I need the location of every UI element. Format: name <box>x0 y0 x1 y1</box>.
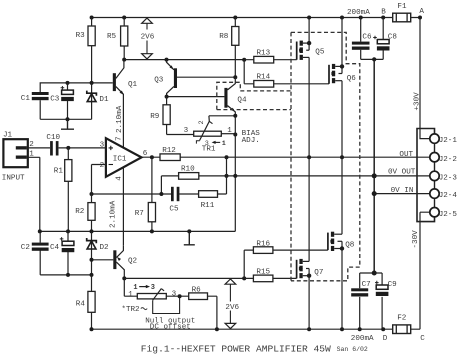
svg-text:200mA: 200mA <box>351 335 374 343</box>
wire: C6/C8 bottom to 0V <box>361 58 384 60</box>
svg-text:C6: C6 <box>362 34 372 42</box>
svg-text:200mA: 200mA <box>347 9 370 17</box>
IC1 pin labels <box>100 141 148 180</box>
wire: 0V vertical bus <box>373 59 375 273</box>
svg-text:2.10mA: 2.10mA <box>116 105 124 133</box>
svg-text:*TR2: *TR2 <box>121 306 140 314</box>
svg-text:Q6: Q6 <box>347 75 357 83</box>
junction dots on top rail <box>90 16 422 20</box>
wire: C3 leads <box>67 83 69 119</box>
wire: Q4/TR1 vertical to ground rail <box>234 116 236 232</box>
junction dots on collector rail <box>122 58 168 62</box>
wire: C5/R11 feedback branch <box>92 193 227 195</box>
voltage indicator 2V6 (bottom) <box>225 279 239 329</box>
wire: R15/R16 left feed <box>244 250 253 278</box>
svg-text:San 6/02: San 6/02 <box>337 346 368 353</box>
svg-text:C7: C7 <box>362 281 371 289</box>
svg-text:C5: C5 <box>169 205 179 213</box>
junction C3 ground <box>66 117 70 121</box>
junction Q3 collector <box>165 95 169 99</box>
wire: J1 pin2 to C10 <box>28 147 50 149</box>
capacitor C4 <box>50 237 74 252</box>
svg-text:1: 1 <box>227 127 232 135</box>
svg-text:1: 1 <box>222 140 226 148</box>
svg-text:F2: F2 <box>397 315 407 323</box>
junction dots on 0V OUT rail <box>225 174 238 178</box>
resistor R11 <box>199 191 218 210</box>
svg-text:2.10mA: 2.10mA <box>110 200 118 228</box>
svg-text:J2-4: J2-4 <box>439 192 458 200</box>
svg-text:7: 7 <box>115 136 123 141</box>
wire: 0V IN rail <box>374 193 430 195</box>
wire: Q1 base <box>92 82 113 84</box>
svg-text:J2-1: J2-1 <box>439 137 458 145</box>
wire: bottom cluster bottom <box>40 274 91 276</box>
svg-text:+30V: +30V <box>413 92 421 111</box>
svg-text:C8: C8 <box>388 34 398 42</box>
junction D2/Q2 base <box>90 258 94 262</box>
svg-text:2: 2 <box>100 162 105 170</box>
resistor R6 <box>189 286 208 299</box>
TR1 direction note 3<-1 <box>196 140 225 148</box>
connector J2 housing <box>417 129 435 222</box>
caption <box>141 343 368 354</box>
wire: -30V feed from J2-5 <box>420 212 430 329</box>
svg-text:J2-5: J2-5 <box>439 211 458 219</box>
svg-text:3: 3 <box>205 140 209 148</box>
capacitor C1 <box>21 92 49 103</box>
MOSFET Q7 <box>297 259 324 279</box>
svg-text:D: D <box>383 335 388 343</box>
op-amp IC1 <box>106 138 142 177</box>
wire: +30V top supply rail <box>92 17 420 19</box>
wire: R6 to -rail <box>208 296 217 329</box>
wire: Q3 base to R8 <box>177 76 235 78</box>
junction at R2 top / IC1 pin2 <box>90 192 94 196</box>
svg-text:C: C <box>420 335 425 343</box>
svg-text:R16: R16 <box>256 240 270 248</box>
connector pin J2-1 <box>430 134 458 145</box>
resistor R4 <box>76 275 95 329</box>
dashed thermal outline: Q4 box <box>217 82 291 109</box>
svg-text:C9: C9 <box>388 281 398 289</box>
zener diode D2 <box>87 238 109 252</box>
svg-text:R12: R12 <box>162 147 176 155</box>
capacitor C9 leads <box>381 273 383 329</box>
wire: output rail OUT <box>180 156 430 158</box>
wire: Q3 collector to R9/Q4 <box>167 86 225 96</box>
junction 0V OUT at 0V bus <box>372 173 377 178</box>
svg-text:INPUT: INPUT <box>2 174 25 182</box>
junction dots on ground rail <box>38 229 192 233</box>
junction R8/Q3/Q4 <box>233 75 237 79</box>
wire: IC1 output <box>142 156 161 158</box>
resistor R8 <box>219 18 239 78</box>
resistor R5 <box>107 18 128 60</box>
svg-text:R11: R11 <box>201 202 215 210</box>
wire: Q6 source down to output <box>341 81 343 158</box>
svg-text:DC offset: DC offset <box>150 323 191 331</box>
resistor R10 <box>179 165 199 179</box>
svg-text:R14: R14 <box>257 73 271 81</box>
resistor R1 <box>54 148 72 232</box>
svg-text:D2: D2 <box>100 244 110 252</box>
wire: Q1/Q3 collector rail <box>124 59 244 61</box>
svg-text:A: A <box>419 8 424 16</box>
svg-text:R2: R2 <box>75 208 85 216</box>
svg-text:Q8: Q8 <box>345 242 355 250</box>
dashed thermal outline: heatsink corridor and FET box <box>291 32 360 280</box>
ground symbol (mid) <box>184 231 195 244</box>
wire: R13 to Q5 gate <box>274 59 297 61</box>
svg-text:C4: C4 <box>50 244 60 252</box>
svg-text:D1: D1 <box>99 96 109 104</box>
wire: +30V feed to J2-1 <box>420 18 430 139</box>
wire: C7/C9 top to 0V bus <box>360 272 382 274</box>
wire: Q7 drain up to output <box>308 157 310 261</box>
fuse F1 <box>393 3 411 22</box>
wire: D2 leads <box>91 231 93 275</box>
zener diode D1 <box>87 91 109 105</box>
ground symbol (input filter) <box>61 119 74 129</box>
capacitor C9 <box>375 281 397 296</box>
fuse F2 <box>393 315 411 334</box>
wire: R14 to Q6 gate <box>274 83 329 85</box>
wire: R9 to TR1 <box>167 134 194 136</box>
label BIAS ADJ. <box>242 130 261 145</box>
connector pin J2-3 <box>430 171 458 182</box>
capacitor C6 <box>352 34 372 50</box>
wire: lower gate-feed rail <box>124 277 244 279</box>
junction IC1 output <box>150 155 154 159</box>
svg-text:R13: R13 <box>257 49 271 57</box>
transistor Q1 <box>113 60 138 148</box>
svg-text:J2-2: J2-2 <box>439 156 458 164</box>
connector pin J2-2 <box>430 153 458 164</box>
junction feedback left <box>159 192 163 196</box>
wire: Q6 drain to +rail <box>341 18 343 67</box>
svg-text:-30V: -30V <box>412 230 420 249</box>
junction dots bottom cluster <box>66 273 94 277</box>
wire: Q5 source down to output <box>308 57 310 157</box>
svg-text:F1: F1 <box>397 3 407 11</box>
svg-text:R1: R1 <box>54 168 64 176</box>
junction dots on OUT rail <box>225 155 345 159</box>
connector pin J2-5 <box>430 208 458 219</box>
svg-text:Q7: Q7 <box>314 269 323 277</box>
svg-text:ADJ.: ADJ. <box>242 137 260 145</box>
wire: R15 to Q7 gate <box>273 277 297 279</box>
svg-text:J2-3: J2-3 <box>439 175 458 183</box>
capacitor C2 <box>21 243 49 252</box>
svg-text:R3: R3 <box>76 32 86 40</box>
svg-text:R4: R4 <box>76 301 86 309</box>
svg-text:IC1: IC1 <box>113 155 127 163</box>
wire: C4 leads <box>67 231 69 275</box>
svg-text:R5: R5 <box>107 33 117 41</box>
svg-text:C2: C2 <box>21 244 31 252</box>
svg-text:C3: C3 <box>50 96 60 104</box>
wire: R13/R14 left feed <box>244 60 254 84</box>
resistor R3 <box>76 18 96 83</box>
wire: feedback branch verticals <box>161 157 226 194</box>
junction Q2 collector <box>122 276 126 280</box>
svg-text:1: 1 <box>133 284 137 292</box>
svg-text:Q5: Q5 <box>315 49 325 57</box>
svg-text:R15: R15 <box>256 268 270 276</box>
MOSFET Q6 <box>329 64 356 84</box>
capacitor C7 leads <box>359 273 361 329</box>
svg-text:R8: R8 <box>219 33 229 41</box>
svg-text:3: 3 <box>184 127 189 135</box>
capacitor C5 <box>169 187 179 214</box>
svg-text:3: 3 <box>151 284 155 292</box>
wire: Q7 source to -rail <box>308 276 310 330</box>
svg-text:Q4: Q4 <box>237 97 247 105</box>
svg-text:Fig.1--HEXFET POWER AMPLIFIER: Fig.1--HEXFET POWER AMPLIFIER 45W <box>141 343 331 354</box>
wire: C2 leads <box>39 231 41 275</box>
svg-text:0V OUT: 0V OUT <box>388 169 416 177</box>
junction 0V bottom <box>372 271 377 276</box>
resistor R9 <box>150 97 170 135</box>
svg-text:J1: J1 <box>3 131 13 139</box>
resistor R15 <box>253 268 273 281</box>
junction 0V IN at 0V bus <box>372 191 377 196</box>
resistor R12 <box>160 147 180 161</box>
wire: IC1 pin2 feedback <box>92 165 106 203</box>
wire: C8 leads <box>382 18 384 60</box>
wire: 0V OUT rail <box>161 175 430 177</box>
svg-text:C10: C10 <box>46 134 60 142</box>
junction R13/R14 gate feed <box>242 58 246 62</box>
MOSFET Q8 <box>328 232 355 251</box>
wire: top RC cluster top <box>40 83 91 92</box>
wire: IC1 pin4 to Q2 emitter <box>122 167 124 245</box>
junction 0V top <box>372 57 376 61</box>
svg-text:Q1: Q1 <box>128 81 138 89</box>
junction TR1 wiper / Q4 emitter <box>233 114 237 118</box>
svg-text:C1: C1 <box>21 95 31 103</box>
resistor R14 <box>254 73 274 87</box>
svg-text:2: 2 <box>198 120 206 124</box>
MOSFET Q5 <box>297 41 325 60</box>
svg-text:R6: R6 <box>192 286 202 294</box>
svg-text:3: 3 <box>172 290 177 298</box>
connector J1 <box>3 131 34 167</box>
wire: input ground rail <box>40 230 236 232</box>
svg-text:2V6: 2V6 <box>225 304 239 312</box>
svg-text:R7: R7 <box>135 210 144 218</box>
TR2 direction note 1->3 <box>133 284 155 292</box>
junction TR2 wiper/R6 <box>178 294 182 298</box>
capacitor C8 <box>373 34 397 51</box>
wire: R16 to Q8 gate <box>273 249 328 251</box>
wire: J1 pin1 to ground rail <box>28 157 40 231</box>
wire: -30V bottom rail <box>92 328 421 330</box>
junction dots C3/D1 top <box>66 81 94 85</box>
wire: C6 leads <box>360 18 362 60</box>
label Null output / DC offset <box>145 317 195 331</box>
resistor R7 <box>135 157 156 231</box>
svg-text:B: B <box>381 9 386 17</box>
capacitor C7 <box>351 281 371 296</box>
transistor Q3 <box>167 60 178 88</box>
capacitor C10 <box>46 134 60 156</box>
svg-text:2V6: 2V6 <box>141 34 155 42</box>
resistor R2 <box>75 203 95 232</box>
wire: D1 leads <box>91 83 93 119</box>
wire: Q8 source to -rail <box>341 249 343 330</box>
svg-text:0V IN: 0V IN <box>391 187 414 195</box>
transistor Q2 <box>92 245 138 278</box>
connector pin J2-4 <box>430 189 458 200</box>
svg-text:Q3: Q3 <box>154 77 164 85</box>
wire: C1 bottom lead <box>39 100 41 119</box>
capacitor C3 <box>50 86 74 104</box>
svg-text:Q2: Q2 <box>128 257 138 265</box>
trimpot TR1 <box>184 116 236 154</box>
junction input node <box>66 146 70 150</box>
junction R15/R16 feed <box>242 276 246 280</box>
voltage indicator 2V6 (top) <box>141 18 155 59</box>
wire: top cluster bottom <box>40 118 91 120</box>
resistor R13 <box>254 49 274 63</box>
wire: C10 to IC1 pin3 <box>59 147 106 149</box>
junction dots on bottom rail <box>90 327 386 331</box>
svg-text:OUT: OUT <box>399 151 413 159</box>
transistor Q4 <box>224 77 247 116</box>
svg-text:R9: R9 <box>150 113 160 121</box>
wire: Q8 drain up to output <box>341 157 343 234</box>
svg-text:4: 4 <box>115 176 123 181</box>
junction TR1 pin1 / Q4 net <box>233 133 237 137</box>
resistor R16 <box>253 240 273 253</box>
svg-text:R10: R10 <box>181 165 195 173</box>
trimpot TR2 <box>121 278 188 314</box>
wire: Q5 drain to +rail <box>308 18 310 44</box>
